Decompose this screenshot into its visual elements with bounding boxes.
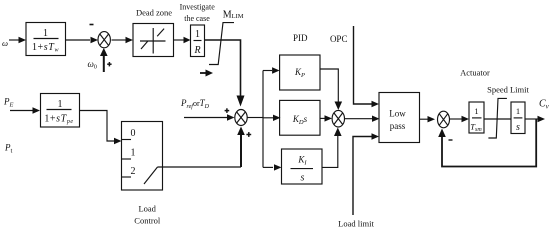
wire omega0 up into S1: [100, 48, 108, 72]
svg-text:Speed Limit: Speed Limit: [487, 85, 529, 95]
block integrator 1/s: [511, 102, 525, 134]
svg-text:Actuator: Actuator: [460, 68, 490, 78]
wire branch to KDs: [263, 115, 281, 121]
svg-text:pass: pass: [390, 121, 406, 131]
block low pass: [379, 93, 420, 143]
svg-text:1: 1: [516, 106, 520, 116]
svg-text:s: s: [516, 122, 520, 133]
block dead zone: [133, 24, 174, 57]
plus sign bottom of S2: [246, 132, 251, 137]
wire block to load control switch: [80, 111, 122, 145]
wire PE to block: [10, 107, 40, 113]
wire S3 to low pass: [345, 116, 380, 122]
wire KI up into S3: [322, 128, 342, 168]
wire 1/R through MLIM down to S2: [205, 40, 245, 107]
branch vertical wire: [262, 71, 264, 168]
summing junction S3: [332, 110, 344, 127]
wire branch to KI: [263, 164, 282, 170]
wire OPC down to low pass: [354, 26, 380, 107]
wire low pass to S4: [420, 116, 436, 122]
svg-text:1: 1: [474, 106, 478, 116]
plus sign omega0: [107, 62, 111, 66]
svg-text:Low: Low: [389, 109, 406, 119]
stray arrow below 1/R: [200, 70, 213, 77]
svg-text:1: 1: [43, 28, 48, 39]
summing junction S2: [235, 110, 247, 126]
svg-text:s: s: [301, 173, 305, 184]
summing junction S1: [98, 32, 110, 48]
wire dead zone to 1/R: [174, 37, 191, 43]
block KI over s: [282, 149, 323, 184]
block 1/Tsm: [469, 102, 484, 133]
limiter MLIM: [209, 23, 234, 65]
block KDs: [280, 100, 320, 135]
svg-text:Investigate: Investigate: [180, 3, 216, 12]
wire 1/Tsm to 1/s: [484, 118, 511, 120]
svg-text:Dead zone: Dead zone: [136, 8, 172, 18]
wire Pref into S2: [184, 114, 235, 120]
wire S2 to branch node: [247, 117, 263, 119]
block 1/(1+sTpe): [41, 94, 80, 128]
wire omega to washout block: [9, 37, 26, 43]
svg-text:1: 1: [195, 29, 200, 40]
svg-text:0: 0: [131, 128, 136, 139]
plus sign left of S2: [225, 108, 230, 113]
wire output Cv: [525, 116, 545, 122]
block droop 1/R: [191, 25, 205, 57]
summing junction S4: [438, 111, 450, 128]
minus sign at S4 feedback: [449, 139, 453, 141]
svg-text:1: 1: [58, 99, 63, 110]
svg-text:OPC: OPC: [330, 34, 348, 44]
svg-text:the case: the case: [184, 14, 210, 23]
svg-text:Load limit: Load limit: [338, 219, 374, 229]
wire S1 to dead zone: [112, 37, 134, 43]
limiter speed limit: [488, 98, 507, 138]
svg-text:R: R: [193, 45, 200, 56]
wire feedback from output to S4: [438, 119, 536, 167]
minus sign at S1: [90, 24, 94, 26]
label Load Control: [134, 204, 161, 226]
wire load limit up to low pass: [353, 133, 379, 215]
wire KP down into S3: [320, 69, 342, 110]
wire KDs into S3: [320, 115, 333, 121]
block washout 1/(1+sTw): [26, 23, 66, 56]
label Investigate the case: [180, 3, 216, 24]
wire washout to summing junction S1: [66, 37, 98, 43]
svg-text:Load: Load: [138, 204, 156, 214]
wire S4 to 1/Tsm: [450, 116, 470, 122]
svg-text:1: 1: [131, 148, 136, 159]
svg-text:2: 2: [131, 166, 136, 177]
svg-text:Control: Control: [134, 216, 161, 226]
wire switch output up into S2: [158, 127, 245, 168]
wire branch to KP: [263, 67, 280, 73]
svg-text:ω: ω: [2, 38, 8, 48]
block KP: [280, 55, 320, 90]
svg-text:PID: PID: [293, 33, 308, 43]
block load control switch: [122, 122, 163, 191]
